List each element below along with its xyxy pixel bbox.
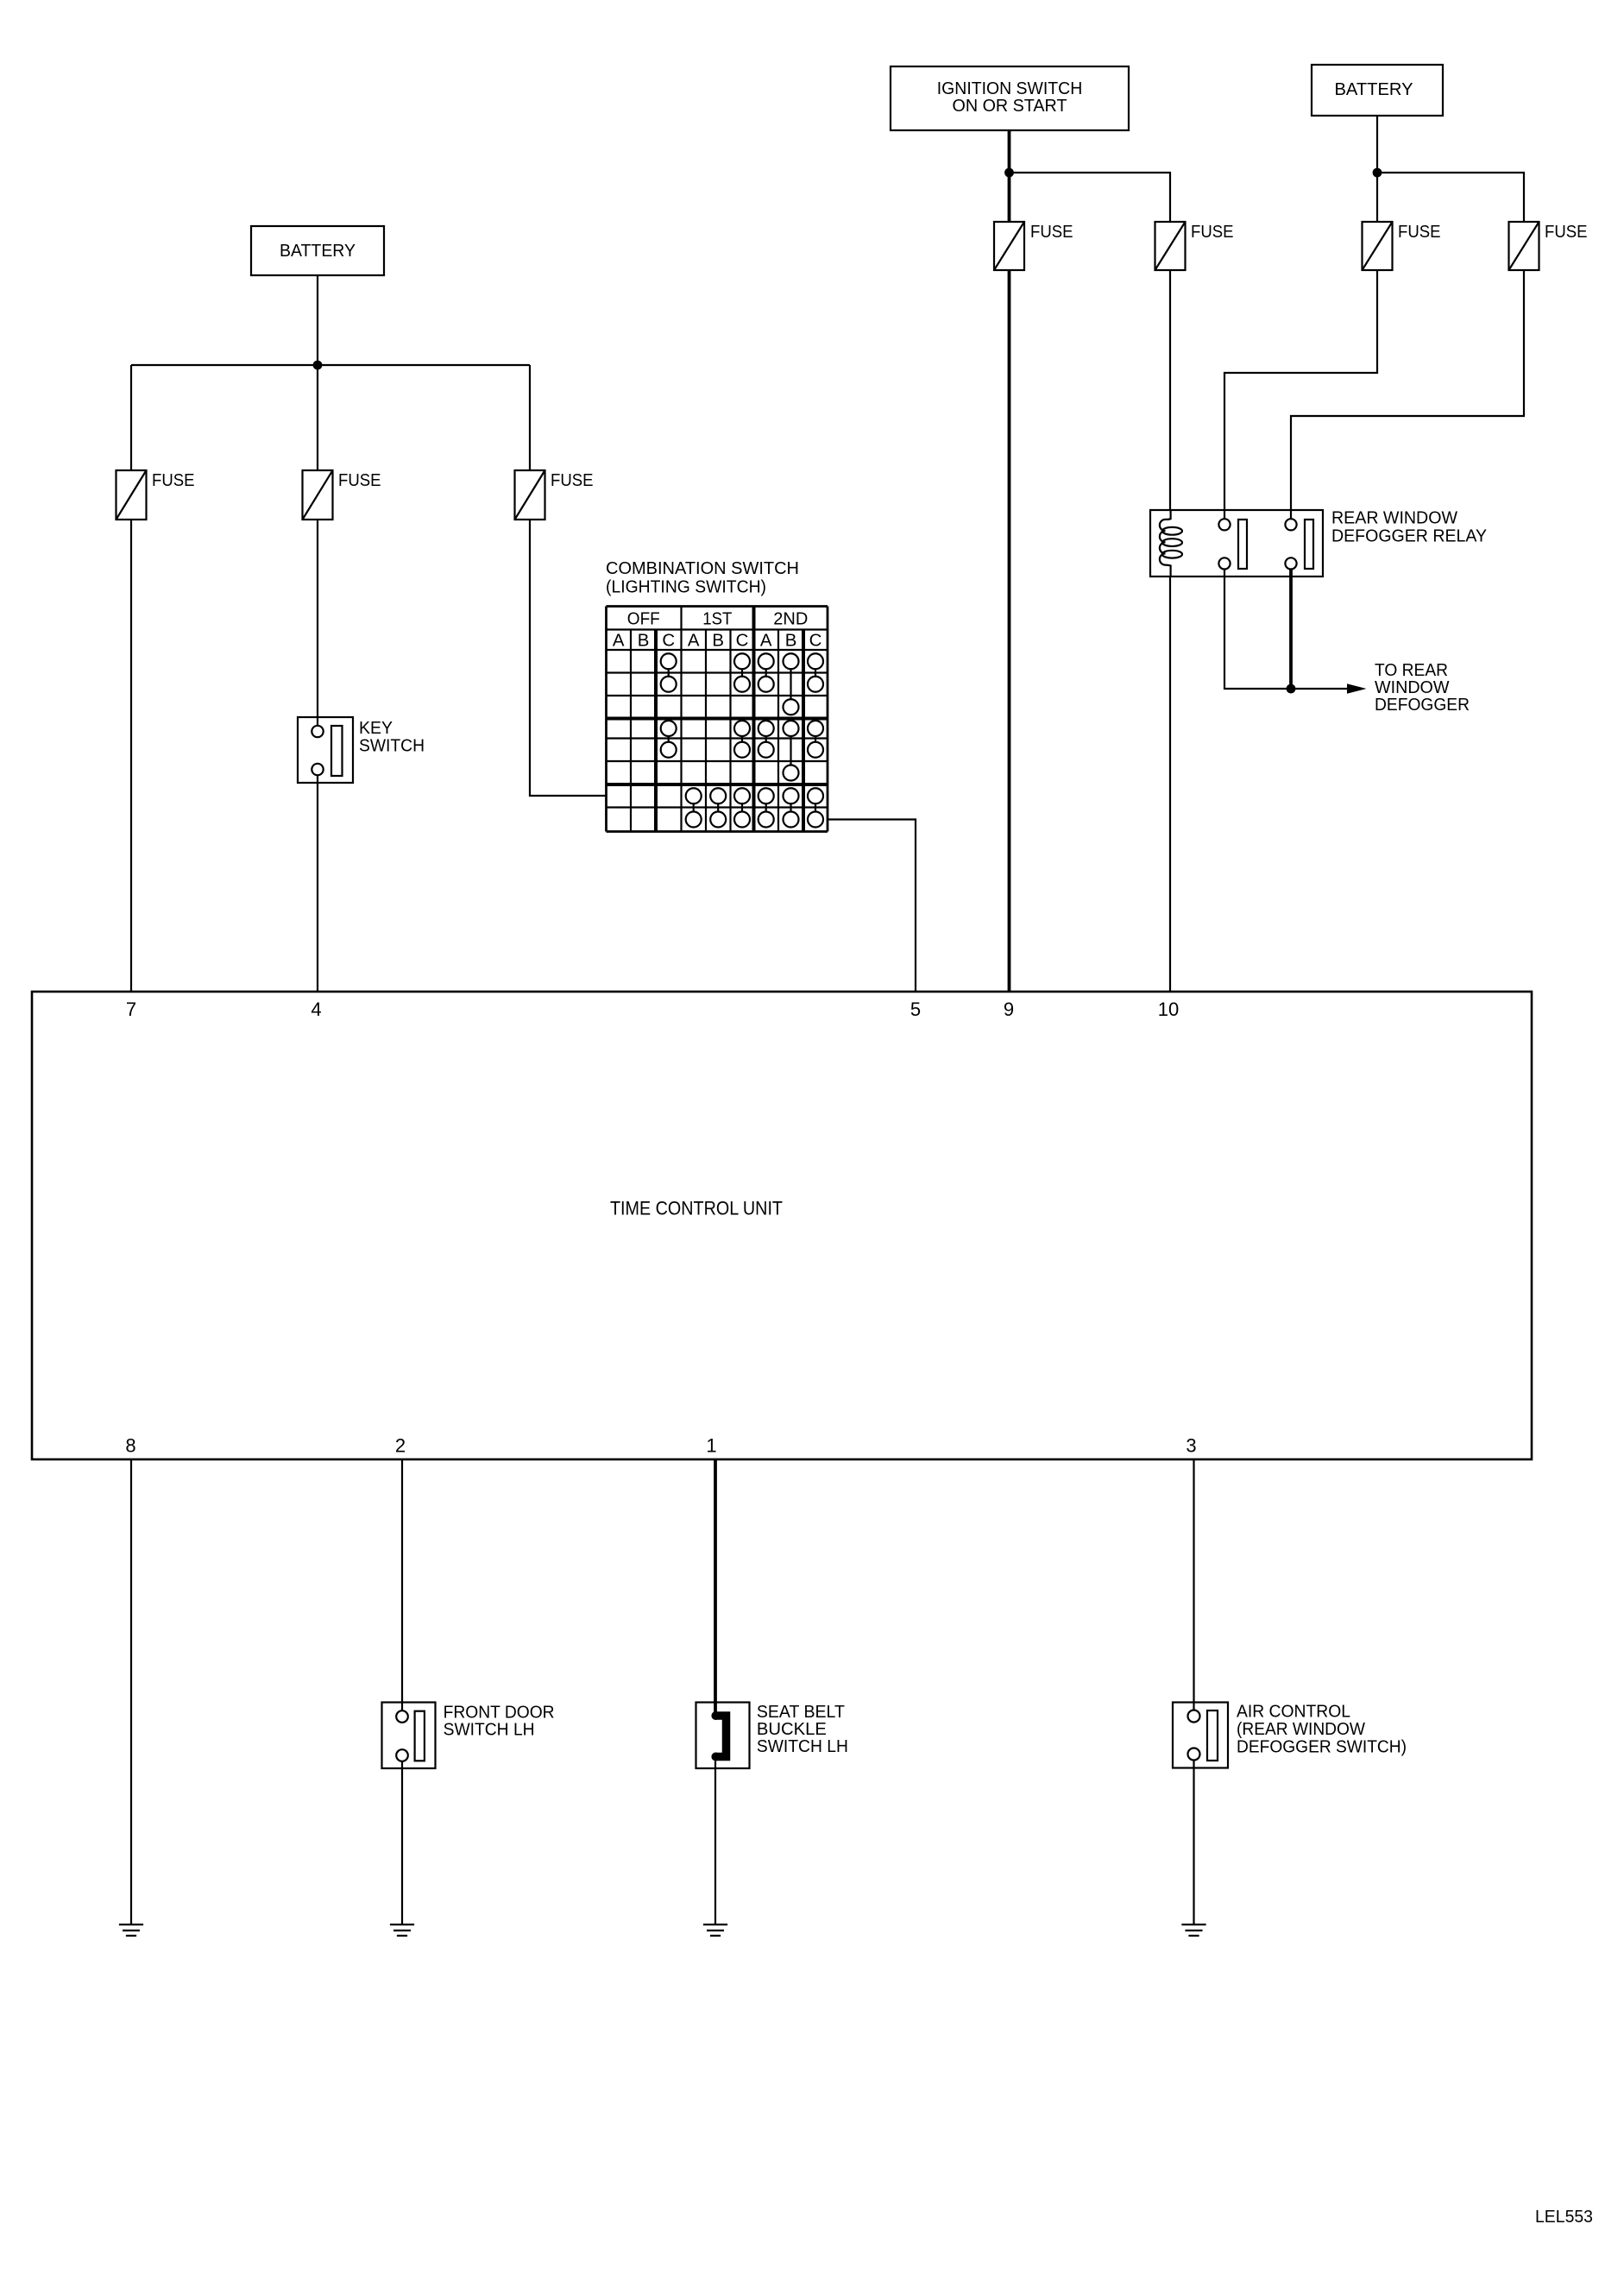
svg-text:COMBINATION SWITCH: COMBINATION SWITCH (606, 559, 799, 578)
wire fuse F2 to key switch (317, 520, 318, 726)
label FRONT DOOR SWITCH LH (444, 1704, 555, 1740)
svg-text:5: 5 (910, 999, 921, 1020)
svg-text:(LIGHTING SWITCH): (LIGHTING SWITCH) (606, 578, 766, 597)
wire air control switch to ground (1193, 1761, 1194, 1925)
svg-text:DEFOGGER SWITCH): DEFOGGER SWITCH) (1237, 1738, 1407, 1757)
wire battery B1 down (317, 275, 318, 365)
wire combination switch to TCU pin 5 (828, 820, 916, 992)
svg-text:WINDOW: WINDOW (1375, 678, 1450, 697)
wire relay contact 2 down (bold) (1289, 570, 1293, 690)
svg-text:(REAR WINDOW: (REAR WINDOW (1237, 1720, 1366, 1739)
junction battery bus (313, 361, 323, 370)
svg-text:FUSE: FUSE (1398, 223, 1441, 242)
svg-text:IGNITION SWITCH: IGNITION SWITCH (937, 79, 1083, 98)
fuse F7 (1509, 222, 1539, 270)
svg-text:BATTERY: BATTERY (1335, 80, 1413, 99)
svg-text:BATTERY: BATTERY (280, 242, 356, 261)
svg-text:FUSE: FUSE (1030, 223, 1073, 242)
seat belt buckle switch S3 (696, 1703, 750, 1769)
svg-text:8: 8 (125, 1435, 135, 1457)
wire branch to fuse F7 (1377, 173, 1524, 222)
combination switch header labels (613, 609, 821, 650)
svg-text:REAR WINDOW: REAR WINDOW (1331, 509, 1458, 528)
wire seat belt switch to ground (714, 1761, 716, 1925)
label REAR WINDOW DEFOGGER RELAY (1331, 509, 1487, 546)
wire fuse F4 to TCU pin 9 (bold) (1008, 270, 1011, 992)
battery B2 (1312, 65, 1443, 116)
svg-text:10: 10 (1158, 999, 1179, 1020)
svg-text:C: C (809, 631, 822, 650)
wire battery bus (131, 364, 530, 366)
wire ignition switch down (bold) (1008, 130, 1011, 222)
svg-text:KEY: KEY (359, 719, 393, 738)
front door switch S2 (382, 1703, 436, 1769)
svg-text:2ND: 2ND (773, 609, 808, 628)
svg-text:A: A (613, 631, 625, 650)
wire key switch to TCU pin 4 (317, 775, 318, 992)
fuse F1 (116, 470, 147, 520)
svg-text:B: B (785, 631, 797, 650)
junction ignition branch (1004, 168, 1014, 178)
fuse F4 (994, 222, 1024, 270)
svg-text:7: 7 (126, 999, 136, 1020)
wire front door switch to ground (401, 1761, 403, 1925)
svg-text:OFF: OFF (627, 609, 660, 628)
svg-text:FUSE: FUSE (338, 471, 381, 490)
svg-text:DEFOGGER: DEFOGGER (1375, 696, 1470, 715)
ground G1 (119, 1925, 143, 1936)
wire bus to fuse F2 (317, 365, 318, 470)
label SEAT BELT BUCKLE SWITCH LH (757, 1703, 848, 1756)
ground G3 (703, 1925, 727, 1936)
svg-text:TIME CONTROL UNIT: TIME CONTROL UNIT (610, 1198, 783, 1219)
fuse F5 (1155, 222, 1186, 270)
wire bus to fuse F3 (529, 365, 531, 470)
label COMBINATION SWITCH (LIGHTING SWITCH) (606, 559, 799, 597)
svg-text:FUSE: FUSE (1191, 223, 1234, 242)
ground G2 (390, 1925, 414, 1936)
wire fuse F7 to relay contact 2 (1291, 270, 1524, 519)
svg-text:SWITCH: SWITCH (359, 737, 425, 756)
svg-text:C: C (736, 631, 749, 650)
svg-text:B: B (638, 631, 650, 650)
svg-text:3: 3 (1186, 1435, 1196, 1457)
svg-text:A: A (688, 631, 700, 650)
fuse F3 (515, 470, 545, 520)
junction to rear window defogger (1287, 684, 1296, 694)
wire fuse F1 to TCU pin 7 (130, 520, 132, 992)
combination switch contacts (661, 653, 823, 827)
wire relay contact 1 to defogger junction (1224, 570, 1291, 690)
wire fuse F6 to relay contact 1 (1224, 270, 1377, 519)
wire branch to fuse F5 (1010, 173, 1171, 222)
svg-text:FRONT DOOR: FRONT DOOR (444, 1704, 555, 1723)
fuse F2 (303, 470, 333, 520)
fuse F6 (1363, 222, 1393, 270)
svg-text:TO REAR: TO REAR (1375, 661, 1448, 680)
battery B1 (251, 226, 384, 275)
air control switch S4 (1173, 1703, 1228, 1768)
wire bus to fuse F1 (130, 365, 132, 470)
svg-text:C: C (662, 631, 675, 650)
svg-text:4: 4 (311, 999, 321, 1020)
label TO REAR WINDOW DEFOGGER (1375, 661, 1470, 715)
svg-text:SWITCH LH: SWITCH LH (757, 1737, 848, 1756)
svg-text:DEFOGGER RELAY: DEFOGGER RELAY (1331, 527, 1487, 546)
wire arrow to rear window defogger (1291, 684, 1367, 694)
svg-text:SEAT BELT: SEAT BELT (757, 1703, 845, 1722)
svg-text:FUSE: FUSE (152, 471, 195, 490)
relay K1 rear window defogger relay (1150, 510, 1323, 576)
ignition switch box (891, 66, 1129, 130)
svg-text:B: B (712, 631, 724, 650)
svg-text:BUCKLE: BUCKLE (757, 1720, 827, 1739)
wire TCU pin 8 to ground (130, 1459, 132, 1925)
junction battery B2 branch (1373, 168, 1382, 178)
wire relay coil to TCU pin 10 (1169, 576, 1171, 992)
svg-text:ON OR START: ON OR START (953, 97, 1067, 116)
svg-text:A: A (760, 631, 772, 650)
time control unit U1 (32, 992, 1532, 1459)
key switch S1 (298, 717, 353, 783)
wire TCU pin 1 to seat belt switch (bold) (714, 1459, 717, 1716)
svg-text:FUSE: FUSE (1545, 223, 1588, 242)
svg-text:LEL553: LEL553 (1535, 2208, 1593, 2227)
svg-text:1ST: 1ST (702, 609, 732, 628)
svg-text:AIR CONTROL: AIR CONTROL (1237, 1703, 1350, 1722)
label KEY SWITCH (359, 719, 425, 756)
ground G4 (1181, 1925, 1205, 1936)
wire fuse F3 to combination switch (530, 520, 607, 796)
wire battery B2 down (1376, 116, 1378, 222)
svg-text:SWITCH LH: SWITCH LH (444, 1721, 535, 1740)
label AIR CONTROL (REAR WINDOW DEFOGGER SWITCH) (1237, 1703, 1407, 1757)
svg-text:1: 1 (706, 1435, 716, 1457)
svg-text:2: 2 (395, 1435, 406, 1457)
svg-text:FUSE: FUSE (551, 471, 594, 490)
svg-text:9: 9 (1004, 999, 1014, 1020)
wire fuse F5 to relay coil (1169, 270, 1171, 510)
wire TCU pin 3 to air control switch (1193, 1459, 1194, 1711)
wire TCU pin 2 to front door switch (401, 1459, 403, 1711)
combination switch lighting switch table grid (607, 607, 828, 832)
